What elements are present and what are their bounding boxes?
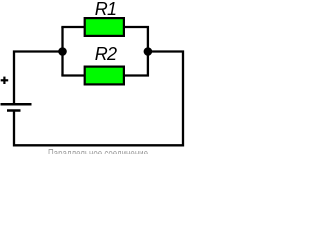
wire: feed from battery top to left junction (14, 52, 63, 105)
resistor R2 (85, 67, 124, 85)
wire: left branch vertical connecting R1 and R2 branches (61, 27, 63, 76)
svg-text:Параллельное соединение: Параллельное соединение (48, 146, 148, 154)
wire: right junction to right edge, down and along bottom back to battery (14, 52, 183, 146)
svg-text:R1: R1 (95, 0, 116, 19)
wire: R1 branch left segment (63, 27, 85, 28)
wire: R2 branch left segment (63, 74, 85, 75)
wire: R1 branch right segment (124, 27, 148, 52)
battery B1: long positive plate (1, 103, 32, 106)
battery B1: short negative plate (7, 109, 21, 112)
resistor R1 (85, 18, 124, 36)
svg-text:R2: R2 (95, 44, 117, 64)
node: right junction dot (144, 47, 153, 56)
node: left junction dot (58, 47, 67, 56)
wire: R2 branch right segment (124, 51, 148, 76)
battery plus sign (1, 77, 9, 84)
